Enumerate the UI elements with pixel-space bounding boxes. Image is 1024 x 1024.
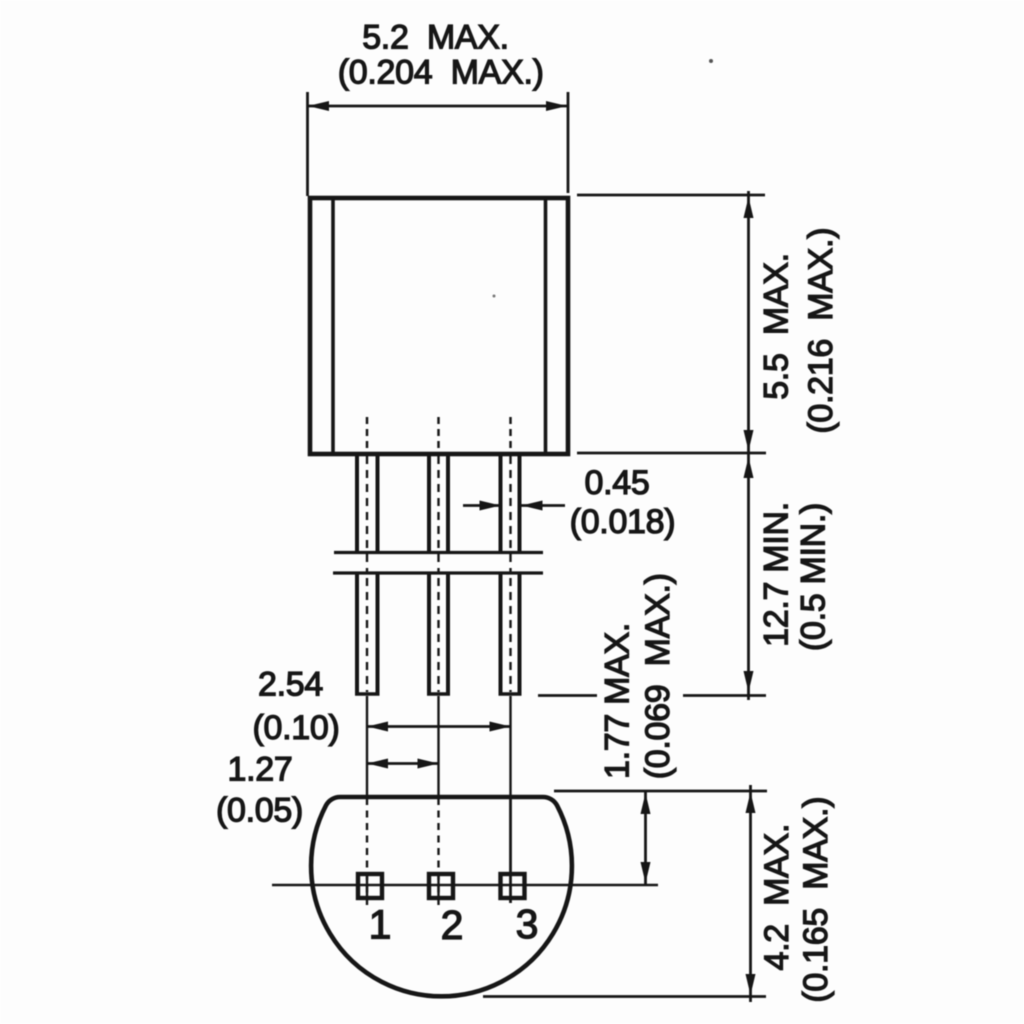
- lead break line upper: [334, 551, 543, 554]
- dim 2.54 right arrowhead: [490, 722, 511, 732]
- svg-text:2: 2: [441, 902, 464, 948]
- svg-text:12.7 MIN.: 12.7 MIN.: [758, 502, 796, 647]
- lead 1 lower section: [355, 573, 380, 694]
- bottom view horizontal centerline: [272, 884, 658, 886]
- bottom view D-shaped outline: [311, 797, 572, 996]
- svg-text:0.45: 0.45: [585, 464, 650, 502]
- dim 1.77/4.2 top extension line: [554, 790, 767, 793]
- lead 3 upper section: [501, 456, 520, 552]
- svg-text:3: 3: [516, 901, 539, 947]
- dim 5.5 up arrowhead: [744, 197, 754, 218]
- dim 12.7 bottom extension line right part: [683, 694, 766, 697]
- dim 4.2 up arrowhead: [746, 792, 756, 813]
- dim 1.77 dimension line: [644, 792, 647, 884]
- lead centerline dashes lower section: [367, 578, 511, 692]
- svg-text:1: 1: [369, 902, 392, 948]
- dim 0.45 right segment: [522, 504, 566, 507]
- lead 3 projection line to bottom view: [509, 696, 511, 796]
- lead centerline dashes upper section: [367, 456, 511, 573]
- dim 5.5 down arrowhead: [744, 430, 754, 451]
- dim 1.77 down arrowhead: [641, 862, 651, 883]
- lead 1 upper section: [357, 456, 378, 552]
- dim 0.45 right arrow pointing left: [480, 501, 501, 511]
- lead 1 projection line to bottom view: [366, 696, 368, 796]
- svg-text:1.77 MAX.: 1.77 MAX.: [599, 623, 637, 779]
- lead 1 centerline (inside body, dashed): [366, 417, 369, 452]
- lead 3 lower section: [499, 573, 522, 694]
- dim 1.77 up arrowhead: [641, 793, 651, 814]
- lead 2 lower section: [427, 573, 450, 694]
- pin 1 square pad: [358, 874, 382, 898]
- lead 3 centerline (inside body, dashed): [509, 417, 512, 452]
- body inner right moulding line: [544, 200, 548, 452]
- svg-text:(0.10): (0.10): [252, 709, 339, 747]
- pin 2 centerline in bottom view (dashed): [437, 798, 439, 906]
- lead 2 projection line to bottom view: [437, 696, 439, 796]
- dim 1.27 left arrowhead: [367, 759, 388, 769]
- svg-text:(0.216 MAX.): (0.216 MAX.): [802, 228, 840, 434]
- svg-text:5.2 MAX.: 5.2 MAX.: [362, 19, 509, 57]
- dim 12.7 bottom extension line left part: [538, 694, 597, 697]
- svg-text:(0.165 MAX.): (0.165 MAX.): [797, 797, 835, 1003]
- pin 1 centerline in bottom view (dashed): [366, 798, 368, 906]
- svg-text:(0.05): (0.05): [216, 792, 303, 830]
- speck top right: [709, 59, 713, 63]
- body inner left moulding line: [331, 200, 335, 452]
- dim 12.7 down arrowhead: [744, 671, 754, 692]
- pin 3 centerline in bottom view (solid): [509, 797, 512, 903]
- dim 4.2 dimension line: [749, 785, 752, 1002]
- pin 2 square pad: [429, 874, 453, 898]
- dim 1.27 dimension line: [367, 762, 439, 765]
- dim 5.2 right arrowhead: [546, 101, 567, 111]
- dim 0.45 left segment: [463, 504, 500, 507]
- body outline TO-92 front view: [310, 198, 568, 454]
- pin 1 square cross vertical: [366, 875, 368, 897]
- dim 5.2 left arrowhead: [308, 101, 329, 111]
- dim 0.45 left arrow pointing right: [522, 501, 543, 511]
- svg-text:5.5 MAX.: 5.5 MAX.: [758, 253, 796, 400]
- lead 2 upper section: [429, 456, 448, 552]
- dim 4.2 down arrowhead: [746, 974, 756, 995]
- svg-text:(0.204 MAX.): (0.204 MAX.): [338, 54, 544, 92]
- dim 5.5/12.7 shared extension line: [577, 452, 766, 455]
- dim 5.2 right extension line: [567, 92, 570, 193]
- svg-text:2.54: 2.54: [258, 666, 323, 704]
- lead break line lower: [333, 571, 543, 574]
- dim 1.27 right arrowhead: [418, 759, 439, 769]
- svg-text:(0.018): (0.018): [570, 503, 676, 541]
- speck in body: [493, 295, 496, 298]
- pin 3 square pad: [501, 874, 525, 898]
- svg-text:(0.5 MIN.): (0.5 MIN.): [795, 503, 833, 651]
- pin 2 square cross vertical: [437, 875, 439, 897]
- svg-text:(0.069 MAX.): (0.069 MAX.): [639, 573, 677, 779]
- dim 5.2 dimension line: [308, 105, 567, 108]
- dim 5.2 left extension line: [306, 92, 309, 196]
- dim 2.54 dimension line: [367, 725, 511, 728]
- dim 5.5 top extension line: [577, 194, 765, 197]
- dim 2.54 left arrowhead: [367, 722, 388, 732]
- dim 12.7 up arrowhead: [744, 457, 754, 478]
- svg-text:1.27: 1.27: [228, 751, 293, 789]
- svg-text:4.2 MAX.: 4.2 MAX.: [758, 824, 796, 971]
- dim 5.5 and 12.7 dimension line: [747, 191, 750, 700]
- lead 2 centerline (inside body, dashed): [437, 417, 440, 452]
- dim 4.2 bottom extension line: [483, 995, 766, 998]
